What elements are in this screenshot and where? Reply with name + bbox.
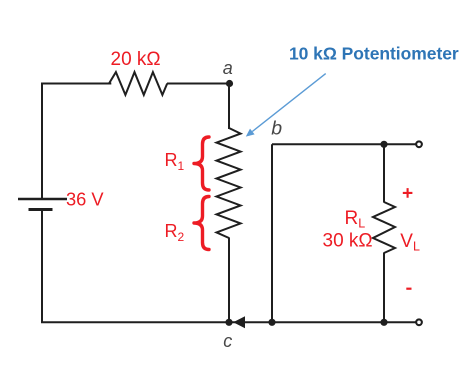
terminal (open circle, top right) [416,141,422,147]
wire: top-left loop (left vertical upper + top horizontal into resistor) [42,84,111,200]
wire: battery negative to bottom-left corner [42,210,229,323]
junction dot (b-loop meets bottom wire) [268,319,275,326]
svg-text:VL: VL [400,231,420,254]
svg-text:c: c [223,331,232,351]
polarity - [406,288,411,290]
junction dot at load bottom [380,319,387,326]
wire: load bottom stub [383,253,385,323]
svg-text:R1: R1 [165,150,185,173]
svg-text:10 kΩ Potentiometer: 10 kΩ Potentiometer [289,44,459,64]
node a junction dot [226,80,233,87]
brace R1 (red curly brace) [194,137,209,190]
wire: load top stub [383,144,385,202]
svg-text:b: b [271,118,282,140]
junction dot at load top [380,141,387,148]
wire: potentiometer bottom to node c [228,238,230,323]
svg-text:RL: RL [345,208,366,231]
annotation arrow (blue, pointing to potentiometer) [246,74,326,137]
svg-text:R2: R2 [165,221,185,244]
wire: node b horizontal to load branch [272,143,416,145]
resistor RL 30 kOhm (vertical zigzag) [373,202,395,253]
battery V 36V (plates) [18,199,67,210]
brace R2 (red curly brace) [194,197,209,250]
svg-text:30 kΩ: 30 kΩ [323,230,373,251]
wire: resistor to node a [167,83,230,85]
node c junction dot [225,319,232,326]
svg-text:36 V: 36 V [66,189,104,210]
wiper arrow at node c (points left into c) [233,316,245,328]
svg-text:a: a [223,58,233,78]
resistor 20 kOhm (horizontal zigzag) [109,72,167,95]
wire: node b loop (down to bottom wire) [271,144,273,322]
wire: bottom horizontal (node c to right terminal) [229,321,416,323]
svg-text:20 kΩ: 20 kΩ [111,49,161,70]
terminal (open circle, bottom right) [416,319,422,325]
potentiometer 10 kOhm (vertical zigzag) [217,128,241,238]
wire: node a down to potentiometer top [228,84,230,130]
polarity + [403,188,413,198]
